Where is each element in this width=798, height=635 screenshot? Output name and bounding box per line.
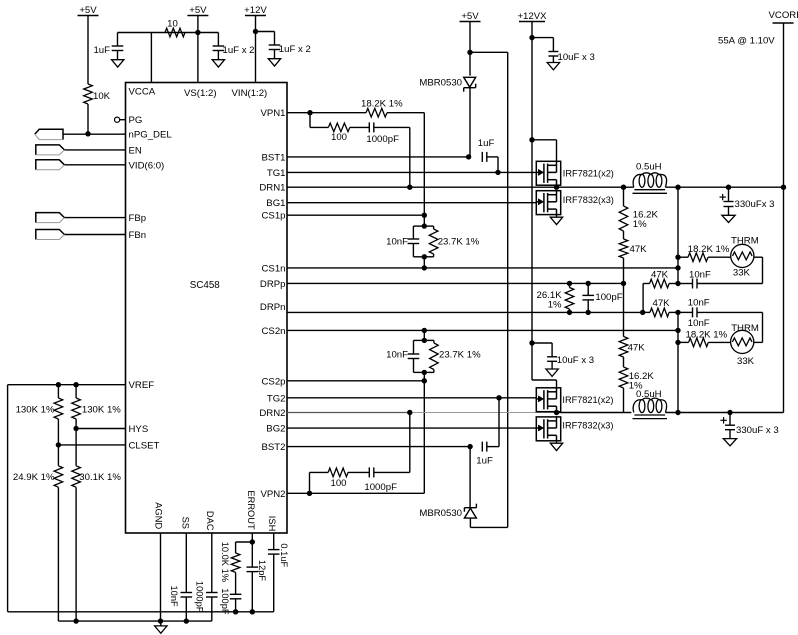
wire analog ground rail [8,611,274,613]
wire [469,447,471,508]
wire VREF [8,384,126,386]
node RC1 top [422,223,427,228]
svg-text:1000pF: 1000pF [195,581,205,613]
wire CS1p [287,214,424,216]
svg-text:1uF x 2: 1uF x 2 [223,45,255,56]
wire [87,104,89,134]
node CS1p junction [422,213,427,218]
power +5V rail (bootstrap) [460,21,481,23]
svg-text:1000pF: 1000pF [364,482,397,493]
resistor 47K (DRPn upper) [643,283,650,285]
svg-text:FBn: FBn [129,230,147,241]
svg-text:47K: 47K [628,343,646,354]
capacitor 12pF [247,566,259,568]
svg-text:23.7K 1%: 23.7K 1% [439,350,481,361]
svg-text:55A @ 1.10V: 55A @ 1.10V [718,36,775,47]
svg-text:12pF: 12pF [257,560,267,582]
svg-text:SS: SS [180,517,190,529]
svg-text:DRN2: DRN2 [259,408,285,419]
svg-text:DAC: DAC [205,511,215,531]
svg-text:IRF7832(x3): IRF7832(x3) [562,421,613,431]
connector FBp flag [36,213,65,223]
svg-text:ISH: ISH [267,516,277,532]
wire TG1 [287,171,536,173]
node TG2-bootstrap junction [496,395,501,400]
transistor Q3 IRF7821(x2) top [536,388,560,412]
capacitor 10nF (CS2) [414,339,425,341]
svg-text:VIN(1:2): VIN(1:2) [232,88,268,99]
wire [423,113,425,216]
svg-text:VPN2: VPN2 [260,489,285,500]
svg-text:10nF: 10nF [386,236,408,247]
power +5V rail (VS) [187,15,208,17]
node 10uF tap 2 [529,340,534,345]
svg-text:18.2K 1%: 18.2K 1% [686,330,728,341]
capacitor 330uF x 3 (phase1) [728,187,730,201]
wire VPN2 [287,492,424,494]
connector VID flag [36,160,65,170]
wire DRPn [287,311,643,313]
wire VPN1 RC branch [309,113,311,128]
node DRN1-RC junction [407,185,412,190]
inductor L2 0.5uH [633,400,642,413]
svg-text:330uF x 3: 330uF x 3 [736,425,779,436]
svg-text:BST1: BST1 [262,152,286,163]
svg-text:10: 10 [167,19,178,30]
node DRN2-RC junction [407,410,412,415]
wire [532,342,552,344]
svg-text:CS1p: CS1p [262,211,286,222]
node +12V junction [253,29,258,34]
resistor 23.7K 1% (CS1) [424,225,433,227]
ground [546,369,558,376]
node VS junction [195,30,200,35]
capacitor 330uF x 3 (phase2) [729,413,731,426]
capacitor 1000pF (phase1) [368,122,370,132]
svg-text:1000pF: 1000pF [366,134,399,145]
node [675,410,680,415]
svg-text:10.0K 1%: 10.0K 1% [220,542,230,582]
wire AGND rail [58,620,211,622]
wire +12VX to Q3 drain [532,379,557,381]
wire CS2p [287,380,424,382]
svg-text:1uF x 2: 1uF x 2 [279,44,311,55]
ground [550,217,562,224]
node [567,281,572,286]
resistor 130K 1% (right) [75,385,77,398]
wire ERROUT [251,533,253,567]
svg-text:330uFx 3: 330uFx 3 [735,199,775,210]
wire chain2 riser [423,330,425,340]
svg-text:0.5uH: 0.5uH [636,389,662,400]
wire [374,471,410,473]
svg-text:VCORE: VCORE [769,10,798,21]
ground [550,443,562,450]
wire [469,22,471,76]
capacitor 1000pF (phase2) [368,467,370,477]
node [586,281,591,286]
wire [532,37,553,39]
wire [423,372,425,380]
svg-text:0.1uF: 0.1uF [279,543,289,567]
svg-text:130K 1%: 130K 1% [82,405,121,416]
wire VCCA riser [150,33,152,83]
wire BG2 [287,427,536,429]
svg-text:10uF x 3: 10uF x 3 [558,52,595,63]
svg-text:nPG_DEL: nPG_DEL [129,130,173,141]
wire DRN1 [287,186,557,188]
svg-text:CS2p: CS2p [262,376,286,387]
wire BG1 [287,202,536,204]
capacitor 0.1uF [268,549,280,551]
wire BST2 [287,446,470,448]
wire nPG_DEL [63,133,125,135]
power +12V rail [245,15,266,17]
pin PG [115,117,120,122]
wire [423,215,425,226]
svg-text:DRPp: DRPp [260,279,286,290]
wire [665,186,783,188]
ground [722,215,735,222]
svg-text:DRPn: DRPn [260,302,286,313]
node phase2 [554,410,559,415]
svg-text:VID(6:0): VID(6:0) [129,160,165,171]
resistor 24.9K 1% [57,445,59,466]
wire [118,32,219,34]
svg-text:100pF: 100pF [220,588,230,615]
connector nPG_DEL flag [35,129,63,139]
svg-text:+5V: +5V [189,5,207,16]
capacitor 1uF (bootstrap 1) [481,152,483,162]
svg-text:SC458: SC458 [190,280,221,291]
resistor 18.2K 1% (VPN1) [310,112,366,114]
diode MBR0530 (bottom) [464,507,476,509]
svg-text:VPN1: VPN1 [260,108,285,119]
svg-text:18.2K 1%: 18.2K 1% [361,98,403,109]
ground [212,60,224,67]
wire [374,126,410,128]
wire [160,621,162,626]
node nPG_DEL [85,131,90,136]
resistor 10K [84,84,93,104]
capacitor 1000pF (DAC) [206,592,218,594]
wire DRPp [287,282,624,284]
node [675,255,680,260]
wire [665,412,783,414]
capacitor 100pF (ERROUT) [230,593,242,595]
wire [497,157,499,173]
node ERROUT branch [250,539,255,544]
thermistor THRM2 33K [731,330,754,353]
svg-text:DRN1: DRN1 [259,183,285,194]
svg-text:VCCA: VCCA [129,87,156,98]
capacitor 1uF [117,33,119,47]
resistor 100 (phase1) [328,123,349,132]
svg-text:100: 100 [331,132,347,143]
wire [197,16,199,83]
wire [556,215,558,218]
svg-text:TG1: TG1 [267,168,286,179]
node VREF-130K left [56,382,61,387]
node phase1 [554,185,559,190]
wire +12VX to Q1 drain [529,137,534,142]
wire phase1 to VCORE [557,186,634,188]
capacitor 1uF x 2 (VS) [217,33,219,47]
svg-text:+5V: +5V [79,5,97,16]
ground [547,63,559,70]
svg-text:BST2: BST2 [262,442,286,453]
node +5V bootstrap junction [467,50,472,55]
wire FBp [64,217,125,219]
wire VCORE sense 1 [677,187,679,283]
wire VPN2 RC branch [309,472,311,493]
svg-text:EN: EN [129,145,142,156]
svg-text:ERROUT: ERROUT [246,490,256,530]
node RC2 top [422,338,427,343]
resistor 16.2K 1% (phase1 droop) [623,187,625,206]
resistor 10.0K 1% [231,553,240,572]
svg-text:18.2K 1%: 18.2K 1% [688,244,730,255]
wire EN [64,149,125,151]
node 16.2K tap [621,185,626,190]
node [675,310,680,315]
node [675,185,680,190]
wire VPN1 [287,112,310,114]
capacitor 10nF (CS1) [413,225,424,227]
svg-text:CS2n: CS2n [262,326,286,337]
wire AGND [160,533,162,621]
svg-text:30.1K 1%: 30.1K 1% [79,472,121,483]
node VREF-130K right [73,382,78,387]
svg-text:1uF: 1uF [476,455,493,466]
wire CLSET [58,444,125,446]
wire [350,126,370,128]
node CS1n-RC1 junction [422,265,427,270]
resistor 18.2K 1% (THRM1) [688,253,708,262]
capacitor 10uF x 3 (bottom) [551,343,553,357]
wire 47K bridge riser [642,284,644,313]
svg-text:24.9K 1%: 24.9K 1% [13,472,55,483]
wire phase2 to VCORE [557,412,632,414]
wire VCORE bus [783,23,785,413]
svg-text:47K: 47K [651,270,669,281]
svg-text:23.7K 1%: 23.7K 1% [438,236,480,247]
svg-text:BG1: BG1 [266,198,285,209]
svg-text:10nF: 10nF [688,298,710,309]
node HYS junction [73,426,78,431]
transistor Q4 IRF7832(x3) bottom [536,417,560,441]
resistor 18.2K 1% (THRM2) [678,341,689,343]
diode MBR0530 (top) [464,87,476,89]
svg-text:+12VX: +12VX [517,11,547,22]
svg-text:IRF7821(x2): IRF7821(x2) [562,395,613,405]
svg-text:47K: 47K [653,298,671,309]
node BST2-diode junction [467,444,472,449]
node [73,618,78,623]
svg-text:1uF: 1uF [93,45,110,56]
svg-text:1uF: 1uF [478,138,495,149]
wire CS1n [287,267,678,269]
resistor 23.7K 1% (CS2) [424,339,434,341]
svg-text:33K: 33K [733,268,751,279]
svg-text:10uF x 3: 10uF x 3 [557,355,594,366]
svg-text:BG2: BG2 [266,424,285,435]
capacitor 1uF (bootstrap 2) [481,442,483,452]
svg-text:THRM: THRM [731,323,759,334]
inductor L1 0.5uH [633,174,642,187]
wire ISH [273,533,275,550]
ground [112,60,124,67]
svg-text:10nF: 10nF [688,318,710,329]
svg-text:CS1n: CS1n [262,263,286,274]
capacitor 100pF (droop) [587,283,589,295]
connector FBn flag [36,230,65,240]
resistor 47K (phase1 droop) [623,231,625,239]
wire FBn [64,234,125,236]
node RC1 bottom [422,254,427,259]
resistor 26.1K 1% [569,283,571,287]
svg-text:1%: 1% [633,219,647,230]
wire [423,257,425,268]
wire VID(6:0) [64,164,125,166]
power +5V rail (left) [78,15,99,17]
wire droop chain [623,283,625,336]
svg-text:PG: PG [129,115,143,126]
svg-text:10nF: 10nF [386,350,408,361]
svg-text:10nF: 10nF [169,586,179,608]
svg-text:+5V: +5V [461,11,479,22]
transistor Q2 IRF7832(x3) bottom [536,191,560,215]
node DRPn end [640,310,645,315]
svg-text:10nF: 10nF [689,269,711,280]
capacitor 10nF (THRM2) [678,311,693,313]
svg-text:IRF7821(x2): IRF7821(x2) [563,169,614,179]
ground [268,59,280,66]
capacitor 1uF x 2 (VIN) [274,32,276,46]
resistor 10 [165,28,185,37]
svg-text:VREF: VREF [129,380,155,391]
wire [87,16,89,85]
wire VCORE sense 2 [677,312,679,412]
wire [762,312,764,342]
svg-text:47K: 47K [630,244,648,255]
resistor 100 (phase2) [328,468,348,477]
svg-text:33K: 33K [737,356,755,367]
svg-text:CLSET: CLSET [129,440,160,451]
wire DAC [211,533,213,593]
svg-text:100: 100 [330,478,346,489]
svg-text:100pF: 100pF [595,292,622,303]
wire [469,88,471,157]
wire [256,31,275,33]
node CS2n-RC2 junction [422,328,427,333]
svg-text:AGND: AGND [153,502,163,529]
resistor 30.1K 1% [75,429,77,466]
node [233,609,238,614]
node DRPp end [621,281,626,286]
wire [556,440,558,443]
svg-text:MBR0530: MBR0530 [419,508,462,519]
node TG1-bootstrap junction [495,170,500,175]
svg-text:0.5uH: 0.5uH [636,162,662,173]
wire HYS [76,428,125,430]
resistor 47K (DRPn lower) [643,311,650,313]
op-amp U1 SC458 controller box [126,83,288,534]
svg-text:FBp: FBp [129,213,147,224]
node VCORE join [781,185,786,190]
ground [723,439,736,446]
node BST1-diode junction [466,154,471,159]
capacitor 10uF x 3 (top) [552,38,554,52]
svg-text:10K: 10K [93,91,111,102]
node CS2n-sense junction [675,328,680,333]
wire [470,51,508,53]
svg-text:VS(1:2): VS(1:2) [184,88,217,99]
svg-text:HYS: HYS [129,424,149,435]
svg-text:IRF7832(x3): IRF7832(x3) [563,195,614,205]
resistor 16.2K 1% (phase2 droop) [623,357,625,367]
node [675,281,680,286]
power +12VX rail [519,21,545,23]
node VPN1 junction [307,110,312,115]
connector EN flag [36,145,65,155]
wire [754,256,763,258]
node CLSET junction [56,442,61,447]
node VPN2 junction [307,491,312,496]
ground AGND [155,626,167,633]
svg-text:TG2: TG2 [267,393,286,404]
svg-text:+12V: +12V [244,5,267,16]
wire [236,541,253,543]
capacitor 10nF (THRM1) [692,279,694,289]
thermistor THRM1 33K [731,244,754,267]
resistor 130K 1% (left) [57,385,59,398]
svg-text:1%: 1% [548,300,562,311]
resistor 47K (phase2 droop) [619,337,628,358]
wire [498,398,500,447]
wire [255,16,257,83]
node RC2 bottom [422,370,427,375]
wire DRN2 (gray) [287,412,410,414]
capacitor 10nF (SS) [181,592,193,594]
node 10uF tap [529,35,534,40]
wire TG2 [287,397,536,399]
svg-text:THRM: THRM [731,235,759,246]
wire [531,22,533,381]
svg-text:130K 1%: 130K 1% [16,405,55,416]
wire [7,385,9,612]
svg-text:MBR0530: MBR0530 [419,77,462,88]
node [675,340,680,345]
transistor Q1 IRF7821(x2) top [536,161,560,185]
wire [348,471,369,473]
wire BST1 [287,156,469,158]
node CS2p junction [422,378,427,383]
wire SS [185,533,187,593]
wire CS2n [287,329,678,331]
node CS1n-sense junction [675,265,680,270]
